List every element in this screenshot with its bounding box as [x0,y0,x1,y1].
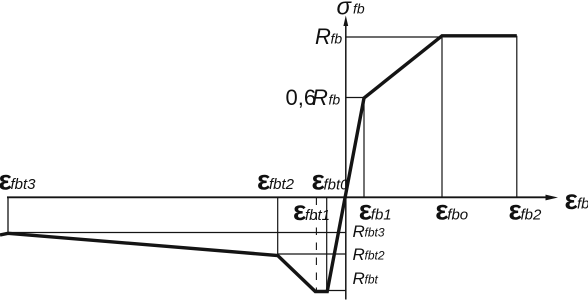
label eps_fb (x axis) [565,184,588,215]
svg-text:R: R [353,245,365,264]
guide line Rfb level [346,36,442,38]
svg-text:R: R [353,222,365,241]
svg-text:fb: fb [353,1,365,17]
label eps_fb2 [509,195,543,226]
svg-text:fb: fb [329,92,341,108]
label eps_fbo [435,195,468,226]
svg-text:fb1: fb1 [371,206,392,223]
vertical at eps_fbt1 (dashed) [315,198,317,291]
vertical at eps_fbt3 [7,198,9,234]
guide line Rfbt2 level [278,253,346,255]
label eps_fbt1 [293,195,330,226]
label eps_fbt0 [312,165,350,196]
svg-text:fbt2: fbt2 [269,176,295,193]
vertical at eps_fbt0 [326,198,328,291]
bold stress-strain curve [0,36,517,292]
guide line Rfbt level [327,290,346,292]
vertical at eps_fbo [441,36,443,198]
label eps_fb1 [359,195,392,226]
svg-text:R: R [353,269,365,288]
svg-text:fbt0: fbt0 [324,176,350,193]
svg-text:fbt: fbt [365,273,379,287]
svg-text:fb2: fb2 [521,206,543,223]
svg-text:fbo: fbo [447,206,468,223]
vertical at eps_fbt2 [277,198,279,257]
vertical at eps_fb2 [516,36,518,198]
label Rfb [315,24,342,49]
svg-text:fbt1: fbt1 [305,207,330,224]
label 0,6Rfb [286,85,341,110]
guide line Rfbt3 level [8,232,346,234]
svg-text:fb: fb [331,31,343,47]
svg-text:ε: ε [565,184,578,215]
label eps_fbt2 [257,164,295,195]
label Rfbt2 [353,245,385,264]
x axis arrowhead [546,195,559,201]
svg-text:fbt3: fbt3 [11,176,37,193]
svg-text:σ: σ [337,0,353,21]
svg-text:fbt3: fbt3 [365,226,385,240]
label eps_fbt3 [0,164,36,195]
label sigma_fb (y axis) [337,0,365,21]
label Rfbt [353,269,379,288]
y axis [345,24,347,300]
guide line 0,6Rfb level [346,97,364,99]
svg-text:R: R [312,85,328,110]
svg-text:fbt2: fbt2 [365,249,385,263]
x axis [7,196,547,198]
svg-text:R: R [315,24,331,49]
label Rfbt3 [353,222,385,241]
y axis arrowhead [343,16,348,27]
vertical at eps_fb1 [363,98,365,198]
svg-text:fb: fb [577,196,588,213]
